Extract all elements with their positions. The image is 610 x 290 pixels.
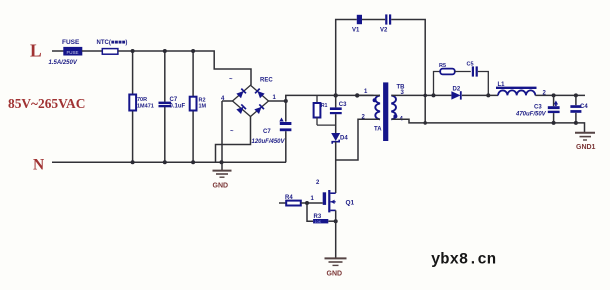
wire B+ rail to transformer pin1 <box>286 95 374 101</box>
junction B+ at pin1 stub <box>355 93 359 97</box>
resistor R2 1M <box>190 97 207 111</box>
svg-text:R5: R5 <box>439 63 446 69</box>
wire vertical branch R6 bottom <box>132 111 134 163</box>
svg-text:10K: 10K <box>315 220 322 224</box>
junction on N at R2 <box>191 160 195 164</box>
svg-text:V1: V1 <box>352 28 360 34</box>
resistor R6 70R 1M471 <box>129 95 154 111</box>
junction output at V2 branch <box>423 94 427 98</box>
svg-text:NTC(■■■■): NTC(■■■■) <box>97 40 128 46</box>
svg-text:~: ~ <box>230 129 234 135</box>
capacitor V2 <box>380 14 391 33</box>
svg-text:C3: C3 <box>339 102 347 108</box>
transformer TB secondary winding <box>391 95 396 119</box>
mosfet Q1 <box>307 180 355 212</box>
wire drain node down to mosfet <box>335 160 337 193</box>
svg-text:Q1: Q1 <box>346 200 355 207</box>
wire L1 to output caps <box>535 94 585 96</box>
bridge diode lower-left <box>236 104 246 114</box>
svg-text:GND1: GND1 <box>576 144 596 151</box>
wire vertical branch C7 top <box>164 51 166 102</box>
resistor R1 clamp <box>314 95 336 125</box>
svg-text:GND: GND <box>213 183 229 190</box>
wire bridge plus vertex to bulk cap <box>269 100 286 102</box>
ground GND input side symbol <box>213 171 232 178</box>
capacitor C4 output <box>570 95 588 123</box>
resistor R5 snubber <box>434 63 471 95</box>
inductor L1 <box>496 82 537 95</box>
wire vertical branch R6 top <box>132 51 134 95</box>
wire secondary output to D2 <box>391 94 451 96</box>
svg-text:0.1uF: 0.1uF <box>170 104 186 110</box>
svg-text:C7: C7 <box>170 97 178 103</box>
capacitor C3 clamp <box>330 95 347 133</box>
transformer TA primary winding <box>375 95 380 119</box>
svg-text:N: N <box>33 157 44 174</box>
wire clamp column up and across top <box>336 20 357 96</box>
junction return at C3 <box>552 121 556 125</box>
junction output at snubber left <box>432 93 436 97</box>
svg-text:470uF/50V: 470uF/50V <box>515 112 547 118</box>
svg-text:R3: R3 <box>314 214 322 220</box>
ground GND source symbol <box>325 258 347 265</box>
resistor R4 gate <box>279 195 307 206</box>
bridge rectifier REC body <box>233 85 269 116</box>
wire source down to ground <box>335 210 337 258</box>
svg-text:85V~265VAC: 85V~265VAC <box>8 96 85 111</box>
svg-text:~: ~ <box>229 77 233 83</box>
svg-text:D2: D2 <box>453 87 461 93</box>
junction at source node <box>334 219 338 223</box>
junction at gate node <box>305 201 309 205</box>
svg-text:L1: L1 <box>498 82 506 88</box>
svg-text:C3: C3 <box>534 105 542 111</box>
junction return at C4 <box>574 121 578 125</box>
zener diode D4 <box>331 133 348 160</box>
svg-text:D4: D4 <box>340 136 348 142</box>
svg-text:1M471: 1M471 <box>137 104 154 110</box>
svg-text:70R: 70R <box>137 97 147 103</box>
primary polarity dot <box>373 98 377 102</box>
junction output at C3 <box>552 93 556 97</box>
junction B+ at clamp column <box>334 93 338 97</box>
svg-text:ybx8.cn: ybx8.cn <box>431 251 496 269</box>
svg-text:REC: REC <box>260 78 273 84</box>
wire N line <box>52 161 286 163</box>
wire vertical branch C7 bottom <box>164 107 166 163</box>
svg-text:C5: C5 <box>467 62 474 68</box>
svg-text:FUSE: FUSE <box>67 50 79 55</box>
wire return rail to ground GND1 <box>576 123 585 132</box>
svg-text:R1: R1 <box>321 103 328 109</box>
junction on N at C7 <box>163 160 167 164</box>
svg-text:C7: C7 <box>263 129 271 135</box>
transformer core <box>383 82 388 141</box>
secondary polarity dot <box>393 114 397 118</box>
svg-text:TA: TA <box>374 127 382 133</box>
wire vertical branch R2 top <box>192 51 194 97</box>
bridge diode upper-right <box>255 89 265 99</box>
svg-text:GND: GND <box>327 271 343 278</box>
wire V1 to V2 <box>362 19 385 21</box>
ground GND1 symbol <box>575 133 595 140</box>
junction on L at C7 <box>163 49 167 53</box>
wire vertical branch R2 bottom <box>192 111 194 163</box>
wire vertical pin4 down to ground <box>221 101 223 170</box>
resistor R3 gate-source <box>307 203 336 224</box>
junction at bulk cap top <box>284 99 288 103</box>
wire pin2 stub to drain node <box>336 119 380 160</box>
capacitor C7 120uF/450V bulk electrolytic <box>252 95 292 162</box>
svg-text:C4: C4 <box>580 104 588 110</box>
junction return rail at V2 branch <box>423 121 427 125</box>
fuse FUSE 1.5A/250V <box>49 39 82 66</box>
capacitor C5 snubber <box>467 62 489 96</box>
svg-text:R4: R4 <box>285 195 293 201</box>
bridge diode upper-left <box>236 89 246 99</box>
junction on N at ground tap <box>220 160 224 164</box>
wire secondary return rail <box>391 119 576 123</box>
svg-text:1M: 1M <box>199 104 207 110</box>
junction on L at R2 <box>191 49 195 53</box>
wire L to fuse <box>52 50 64 52</box>
component V1 <box>352 15 362 34</box>
svg-text:V2: V2 <box>380 28 388 34</box>
svg-text:L: L <box>30 41 42 61</box>
wire D2 to L1 <box>462 94 498 96</box>
capacitor C7 0.1uF <box>159 97 186 110</box>
wire pin1 stub <box>357 94 380 96</box>
wire fuse to NTC <box>82 50 103 52</box>
junction on N at R6 <box>131 160 135 164</box>
svg-text:120uF/450V: 120uF/450V <box>252 139 286 145</box>
diode D2 <box>451 87 460 100</box>
thermistor NTC <box>97 40 128 54</box>
wire bridge minus vertex step to N line <box>216 117 251 163</box>
junction output at C4 <box>574 93 578 97</box>
capacitor C3 470uF/50V output electrolytic <box>515 95 560 123</box>
wire V2 right and down to secondary return <box>391 20 425 123</box>
svg-text:1.5A/250V: 1.5A/250V <box>49 60 78 66</box>
junction on L at R6 <box>131 49 135 53</box>
wire L line and step down to bridge top <box>118 51 251 85</box>
bridge diode lower-right <box>254 104 264 114</box>
svg-text:FUSE: FUSE <box>62 39 80 46</box>
wire bridge pin4 to N vertical <box>222 100 233 102</box>
junction output at snubber right <box>486 93 490 97</box>
